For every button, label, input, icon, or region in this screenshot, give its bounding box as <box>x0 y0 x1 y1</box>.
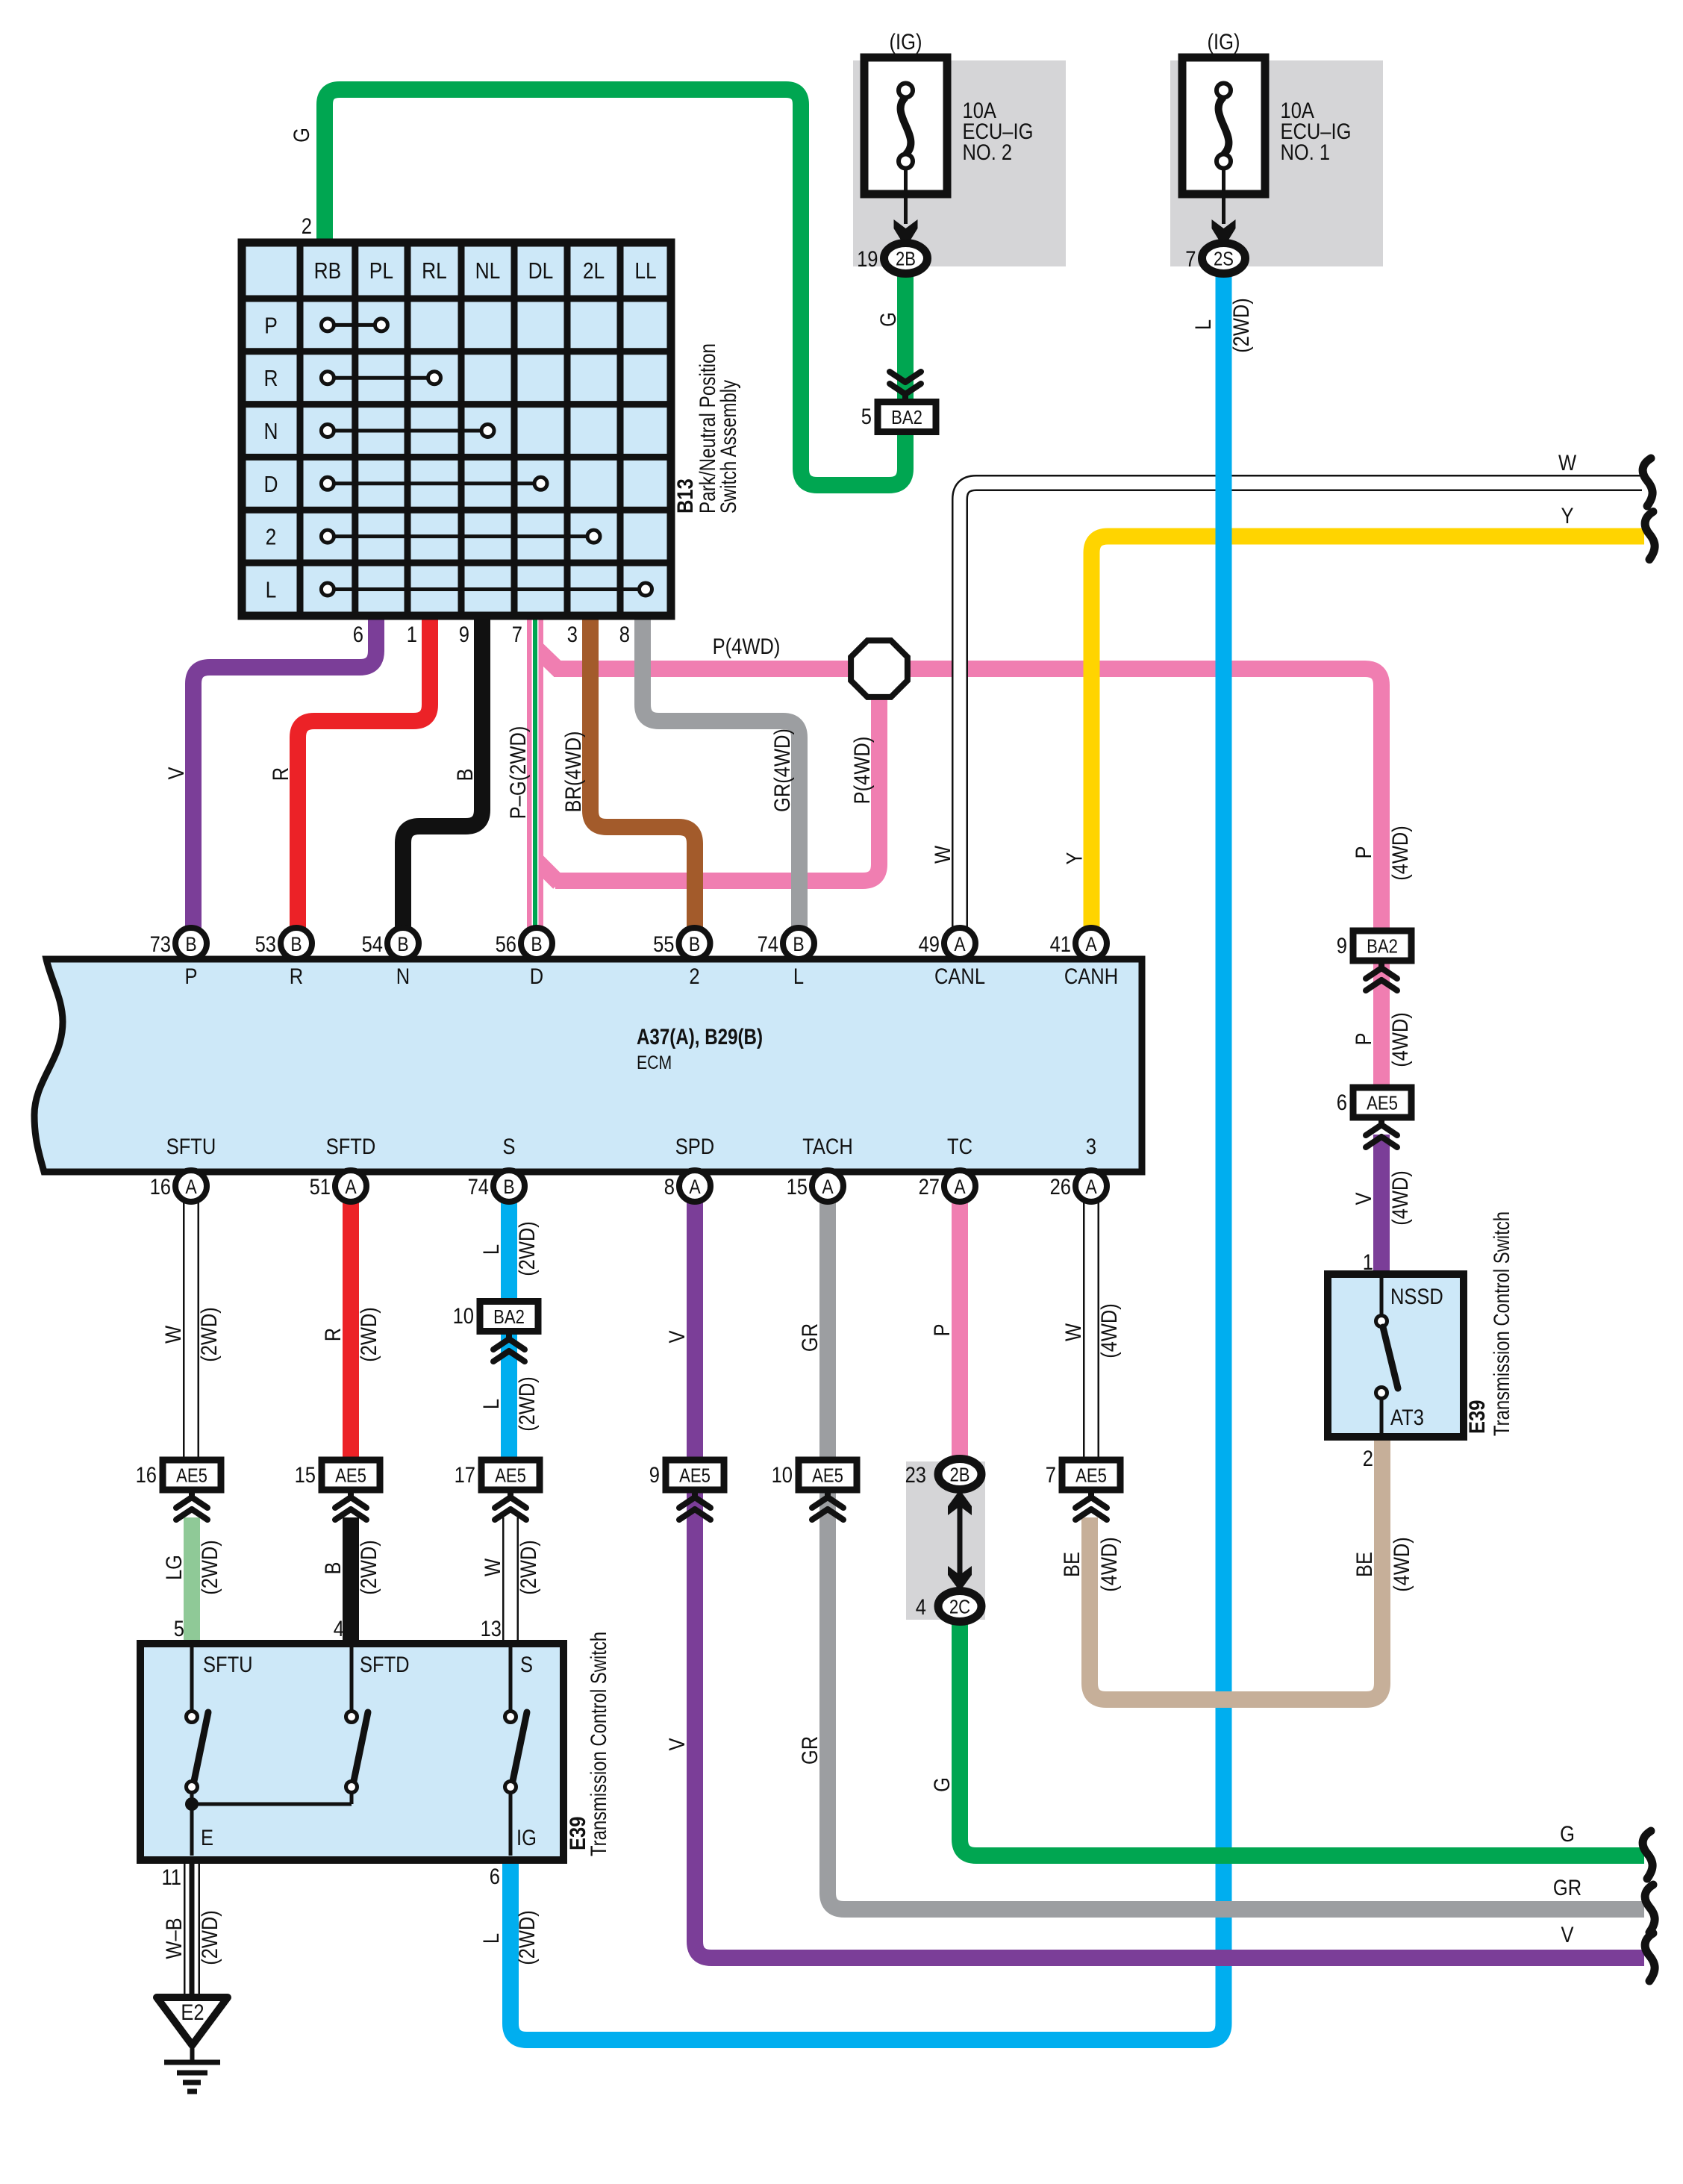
svg-text:16: 16 <box>136 1463 157 1488</box>
connector AE5 pin 10 <box>799 1460 857 1490</box>
svg-text:RB: RB <box>314 258 342 284</box>
svg-text:L: L <box>479 1399 504 1409</box>
svg-text:(4WD): (4WD) <box>1388 826 1413 881</box>
connector 2B pin 23 <box>938 1459 981 1490</box>
svg-text:Transmission Control Switch: Transmission Control Switch <box>587 1632 611 1856</box>
svg-text:(2WD): (2WD) <box>515 1221 540 1276</box>
svg-text:10: 10 <box>453 1304 474 1329</box>
svg-text:10: 10 <box>772 1463 793 1488</box>
ground E2 <box>157 1997 228 2045</box>
svg-text:G: G <box>1560 1822 1575 1847</box>
svg-text:B: B <box>503 1176 514 1198</box>
svg-text:AE5: AE5 <box>495 1464 526 1487</box>
svg-text:BA2: BA2 <box>493 1305 525 1328</box>
svg-text:3: 3 <box>567 623 578 647</box>
svg-text:56: 56 <box>496 932 516 957</box>
svg-text:(IG): (IG) <box>1208 30 1240 54</box>
wire P-G(2WD) from B13 pin 7 to ECM pin 56 <box>527 616 543 929</box>
svg-text:R: R <box>269 767 293 781</box>
svg-text:L: L <box>266 577 277 603</box>
svg-text:W: W <box>1061 1323 1086 1341</box>
svg-text:BE: BE <box>1352 1552 1377 1577</box>
svg-text:A: A <box>689 1176 700 1198</box>
svg-text:GR: GR <box>1553 1876 1581 1900</box>
svg-text:S: S <box>520 1653 533 1677</box>
NSSD/AT3 switch <box>1380 1278 1384 1315</box>
B13 switch contacts <box>328 323 381 327</box>
svg-text:V: V <box>1561 1923 1574 1947</box>
svg-text:AE5: AE5 <box>1367 1092 1398 1114</box>
svg-text:V: V <box>665 1738 690 1751</box>
V continuation squiggle <box>1645 1933 1655 1981</box>
svg-text:P: P <box>264 312 278 338</box>
fuse 10A ECU-IG NO.2 <box>864 57 947 194</box>
svg-text:7: 7 <box>512 623 522 647</box>
svg-text:74: 74 <box>468 1175 489 1199</box>
svg-text:3: 3 <box>1086 1135 1096 1159</box>
svg-text:(2WD): (2WD) <box>198 1910 222 1965</box>
svg-text:Y: Y <box>1561 504 1574 528</box>
svg-text:2S: 2S <box>1214 248 1234 270</box>
wire W(2WD) from ECM pin 16 SFTU to AE5 pin 16 <box>183 1200 199 1461</box>
wire L(2WD) from ECM pin 74 S through BA2 pin 10 to AE5 pin 17 <box>501 1200 517 1461</box>
svg-text:R: R <box>321 1328 346 1341</box>
svg-text:RL: RL <box>422 258 447 284</box>
svg-text:E39: E39 <box>1465 1400 1490 1434</box>
connector BA2 pin 9 <box>1353 931 1411 961</box>
svg-text:2: 2 <box>302 214 312 239</box>
connector AE5 pin 9 <box>666 1460 724 1490</box>
svg-text:DL: DL <box>528 258 554 284</box>
wire GR from ECM pin 15 TACH to AE5 pin 10 and to right edge <box>828 1200 1644 1909</box>
G continuation squiggle <box>1643 1831 1652 1879</box>
svg-text:N: N <box>264 418 278 444</box>
svg-text:P: P <box>1352 1033 1376 1046</box>
svg-text:G: G <box>290 128 314 143</box>
svg-text:E: E <box>201 1826 213 1850</box>
svg-text:2: 2 <box>1363 1447 1373 1471</box>
svg-text:2: 2 <box>266 524 277 550</box>
wire Y from right edge to ECM pin 41 CANH <box>1092 537 1645 930</box>
svg-text:W: W <box>931 845 955 864</box>
svg-text:(4WD): (4WD) <box>1097 1303 1122 1358</box>
E39 internal E bus <box>192 1803 352 1806</box>
svg-text:73: 73 <box>150 932 171 957</box>
GR continuation squiggle <box>1645 1885 1655 1932</box>
svg-text:B: B <box>793 933 804 955</box>
ECM pin 53(B) R <box>281 928 312 959</box>
svg-text:L: L <box>479 1244 504 1255</box>
svg-text:AE5: AE5 <box>1075 1464 1107 1487</box>
svg-text:23: 23 <box>905 1463 926 1488</box>
svg-text:P: P <box>1352 846 1376 859</box>
svg-text:(4WD): (4WD) <box>1388 1170 1413 1226</box>
svg-text:2L: 2L <box>583 258 605 284</box>
svg-text:V: V <box>1352 1193 1376 1205</box>
svg-text:(2WD): (2WD) <box>357 1307 381 1362</box>
svg-text:CANH: CANH <box>1064 964 1118 989</box>
svg-text:G: G <box>930 1777 955 1792</box>
svg-text:P(4WD): P(4WD) <box>713 634 781 659</box>
svg-text:11: 11 <box>162 1865 182 1890</box>
svg-text:16: 16 <box>150 1175 171 1199</box>
svg-text:8: 8 <box>664 1175 675 1199</box>
svg-text:N: N <box>396 964 410 989</box>
svg-text:CANL: CANL <box>934 964 985 989</box>
svg-text:1: 1 <box>1363 1250 1373 1275</box>
svg-text:27: 27 <box>919 1175 940 1199</box>
svg-text:AE5: AE5 <box>335 1464 366 1487</box>
svg-text:A: A <box>1085 933 1096 955</box>
ECM pin 56(B) D <box>521 928 552 959</box>
Y continuation squiggle <box>1645 512 1655 560</box>
svg-text:A: A <box>185 1176 196 1198</box>
svg-text:R: R <box>264 365 278 391</box>
svg-text:54: 54 <box>362 932 383 957</box>
svg-text:(2WD): (2WD) <box>198 1540 222 1595</box>
svg-text:GR: GR <box>798 1323 822 1352</box>
svg-text:41: 41 <box>1050 932 1071 957</box>
svg-text:5: 5 <box>174 1617 184 1641</box>
wire R(2WD) from ECM pin 51 SFTD to AE5 pin 15 <box>343 1200 359 1461</box>
svg-text:BA2: BA2 <box>891 406 922 428</box>
E39 switch S <box>509 1647 513 1711</box>
svg-text:(IG): (IG) <box>890 30 922 54</box>
wire G from connector 2B pin 19 down to BA2 <box>897 272 914 402</box>
fuse block background ECU-IG NO.1 <box>1170 60 1383 266</box>
svg-text:ECM: ECM <box>637 1052 672 1073</box>
ECM pin 73(B) P <box>175 928 207 959</box>
ECM pin 74(B) S <box>493 1170 525 1202</box>
ECM pin 49(A) CANL <box>944 928 975 959</box>
wire BE(4WD) from AE5 pin 7 to E39 pin 2 AT3 <box>1090 1438 1382 1700</box>
svg-text:GR(4WD): GR(4WD) <box>770 728 795 812</box>
svg-text:P: P <box>930 1324 955 1337</box>
svg-text:49: 49 <box>919 932 940 957</box>
svg-text:SFTD: SFTD <box>360 1653 410 1677</box>
svg-text:V: V <box>164 767 189 780</box>
svg-text:B13: B13 <box>673 478 698 514</box>
connector AE5 pin 16 <box>163 1460 221 1490</box>
svg-text:51: 51 <box>310 1175 331 1199</box>
svg-text:6: 6 <box>353 623 363 647</box>
svg-text:D: D <box>264 471 278 497</box>
svg-text:W: W <box>161 1325 186 1344</box>
fuse block background ECU-IG NO.2 <box>853 60 1066 266</box>
svg-text:(2WD): (2WD) <box>515 1910 540 1965</box>
svg-text:NO. 2: NO. 2 <box>963 140 1013 165</box>
ECM pin 27(A) TC <box>944 1170 975 1202</box>
wire B(2WD) from AE5 pin 15 to E39 pin 4 SFTD <box>343 1517 359 1647</box>
connector BA2 pin 5 <box>902 393 908 403</box>
wire V(4WD) from AE5 pin 6 to E39 pin 1 NSSD <box>1373 1135 1390 1278</box>
svg-text:Y: Y <box>1063 852 1087 865</box>
svg-text:L: L <box>793 964 804 989</box>
svg-text:B: B <box>531 933 542 955</box>
connector block background 2B/2C <box>906 1461 985 1620</box>
W continuation squiggle <box>1643 458 1652 506</box>
svg-text:(4WD): (4WD) <box>1097 1537 1122 1592</box>
wire G from B13 pin 2 to junction BA2 pin 5 <box>325 90 905 485</box>
svg-text:9: 9 <box>649 1463 660 1488</box>
svg-text:NO. 1: NO. 1 <box>1281 140 1331 165</box>
svg-text:P–G(2WD): P–G(2WD) <box>506 726 531 820</box>
ECM pin 41(A) CANH <box>1075 928 1107 959</box>
svg-text:(2WD): (2WD) <box>515 1376 540 1432</box>
svg-text:AE5: AE5 <box>176 1464 207 1487</box>
svg-text:SFTD: SFTD <box>326 1135 376 1159</box>
svg-text:1: 1 <box>407 623 417 647</box>
svg-text:15: 15 <box>787 1175 808 1199</box>
wire P(4WD) return diagonal joining P-G wire <box>537 861 559 883</box>
svg-text:PL: PL <box>369 258 393 284</box>
svg-text:S: S <box>503 1135 516 1159</box>
E39 switch SFTU <box>190 1647 194 1711</box>
svg-text:LL: LL <box>634 258 656 284</box>
wire G from connector 2C pin 4 down and right to edge <box>960 1620 1644 1856</box>
svg-text:SFTU: SFTU <box>166 1135 216 1159</box>
svg-text:A37(A), B29(B): A37(A), B29(B) <box>637 1025 763 1049</box>
svg-text:74: 74 <box>758 932 778 957</box>
svg-text:BA2: BA2 <box>1367 935 1398 958</box>
wire V from ECM pin 8 SPD to AE5 pin 9 and to right edge <box>695 1200 1644 1958</box>
svg-text:W: W <box>481 1558 505 1576</box>
svg-text:(4WD): (4WD) <box>1390 1537 1414 1592</box>
svg-text:15: 15 <box>295 1463 316 1488</box>
svg-text:W: W <box>1558 451 1577 475</box>
svg-text:9: 9 <box>459 623 469 647</box>
svg-text:7: 7 <box>1185 247 1196 272</box>
connector AE5 pin 17 <box>481 1460 540 1490</box>
octagon noise-filter junction on P(4WD) <box>851 640 908 697</box>
E39 Transmission Control Switch box <box>140 1644 563 1860</box>
fuse 10A ECU-IG NO.1 <box>1182 57 1265 194</box>
wire GR(4WD) from B13 pin 8 to ECM pin 74 <box>643 616 799 929</box>
svg-text:G: G <box>876 312 901 327</box>
svg-text:A: A <box>954 1176 965 1198</box>
svg-text:A: A <box>1085 1176 1096 1198</box>
svg-text:R: R <box>290 964 303 989</box>
ECM pin 16(A) SFTU <box>175 1170 207 1202</box>
wire B from B13 pin 9 to ECM pin 54 <box>403 616 482 929</box>
svg-text:2B: 2B <box>896 248 916 270</box>
ECM pin 51(A) SFTD <box>335 1170 366 1202</box>
svg-text:B: B <box>185 933 196 955</box>
svg-text:AT3: AT3 <box>1390 1405 1424 1430</box>
wire LG(2WD) from AE5 pin 16 to E39 pin 5 SFTU <box>184 1517 200 1647</box>
svg-text:E2: E2 <box>181 2000 204 2025</box>
svg-text:SPD: SPD <box>675 1135 714 1159</box>
svg-text:6: 6 <box>1337 1091 1347 1115</box>
svg-text:LG: LG <box>162 1555 187 1580</box>
svg-text:SFTU: SFTU <box>203 1653 253 1677</box>
svg-text:(2WD): (2WD) <box>357 1540 381 1595</box>
svg-text:V: V <box>665 1331 690 1344</box>
svg-text:B: B <box>689 933 700 955</box>
svg-text:2C: 2C <box>949 1596 970 1618</box>
wire BR(4WD) from B13 pin 3 to ECM pin 55 <box>590 616 695 929</box>
E39 switch SFTD <box>350 1647 354 1711</box>
wire P(4WD) from octagon down and left back to D wire <box>555 685 879 881</box>
interconnect double arrow 2B-2C <box>958 1499 963 1582</box>
svg-text:P(4WD): P(4WD) <box>850 737 875 805</box>
svg-text:55: 55 <box>653 932 674 957</box>
svg-text:B: B <box>453 769 478 781</box>
wire L(2WD) from connector 2S pin 7 down, left, up to E39 pin 6 IG <box>510 272 1224 2040</box>
svg-text:7: 7 <box>1046 1463 1056 1488</box>
svg-text:A: A <box>954 933 965 955</box>
wire P(4WD) branch diagonal at pin 7 <box>537 649 560 671</box>
wire P(4WD) from BA2 pin 9 to AE5 pin 6 <box>1373 958 1390 1088</box>
svg-text:A: A <box>345 1176 356 1198</box>
ECM pin 26(A) 3 <box>1075 1170 1107 1202</box>
connector AE5 pin 7 <box>1062 1460 1120 1490</box>
svg-text:B: B <box>321 1562 346 1575</box>
wire W(4WD) from ECM pin 26 "3" to AE5 pin 7 <box>1083 1200 1099 1461</box>
svg-text:IG: IG <box>516 1826 537 1850</box>
wire P from ECM pin 27 TC to connector 2B pin 23 <box>952 1200 968 1460</box>
B13 Park/Neutral Position Switch Assembly box <box>242 243 671 616</box>
svg-text:17: 17 <box>455 1463 475 1488</box>
svg-text:L: L <box>479 1933 504 1944</box>
svg-text:D: D <box>530 964 543 989</box>
svg-text:NSSD: NSSD <box>1390 1285 1443 1309</box>
svg-text:6: 6 <box>490 1865 500 1889</box>
ECM pin 8(A) SPD <box>679 1170 711 1202</box>
svg-text:5: 5 <box>861 405 872 429</box>
svg-text:B: B <box>290 933 302 955</box>
svg-text:8: 8 <box>619 623 630 647</box>
wire W from right edge to ECM pin 49 CANL <box>960 483 1642 929</box>
wire W-B(2WD) from E39 pin 11 E to ground E2 <box>184 1862 200 1997</box>
svg-text:4: 4 <box>334 1617 344 1641</box>
ECM A37(A), B29(B) box <box>34 959 1142 1172</box>
ECM pin 15(A) TACH <box>812 1170 843 1202</box>
svg-text:19: 19 <box>857 247 878 272</box>
wire R from B13 pin 1 to ECM pin 53 <box>298 616 430 929</box>
svg-text:AE5: AE5 <box>679 1464 711 1487</box>
svg-text:(4WD): (4WD) <box>1388 1012 1413 1067</box>
svg-text:2: 2 <box>689 964 699 989</box>
connector BA2 pin 10 <box>480 1302 538 1332</box>
svg-text:13: 13 <box>481 1617 502 1641</box>
connector AE5 pin 15 <box>322 1460 380 1490</box>
connector AE5 pin 6 <box>1353 1088 1411 1117</box>
svg-text:2B: 2B <box>950 1464 970 1486</box>
svg-text:AE5: AE5 <box>812 1464 843 1487</box>
wire V from B13 pin 6 to ECM pin 73 <box>193 616 376 929</box>
svg-text:NL: NL <box>475 258 501 284</box>
connector 2C pin 4 <box>938 1591 981 1622</box>
svg-text:BR(4WD): BR(4WD) <box>561 731 586 812</box>
svg-text:(2WD): (2WD) <box>197 1307 222 1362</box>
E39 Transmission Control Switch (NSSD/AT3) box <box>1328 1274 1464 1437</box>
ECM pin 74(B) L <box>783 928 814 959</box>
svg-text:Transmission Control Switch: Transmission Control Switch <box>1490 1211 1514 1436</box>
svg-text:9: 9 <box>1337 934 1347 958</box>
svg-text:W–B: W–B <box>162 1918 187 1959</box>
svg-text:(2WD): (2WD) <box>1229 298 1254 353</box>
svg-text:BE: BE <box>1060 1552 1084 1577</box>
ECM pin 55(B) 2 <box>679 928 711 959</box>
svg-text:A: A <box>822 1176 833 1198</box>
svg-text:TC: TC <box>947 1135 972 1159</box>
ECM pin 54(B) N <box>387 928 419 959</box>
svg-text:GR: GR <box>798 1736 822 1765</box>
svg-text:4: 4 <box>916 1595 926 1620</box>
wire P(4WD) horizontal from D-line branch to corner, down to BA2 pin 9 <box>554 669 1381 933</box>
svg-text:B: B <box>397 933 408 955</box>
svg-text:L: L <box>1191 319 1216 330</box>
wire W(2WD) from AE5 pin 17 to E39 pin 13 S <box>502 1517 519 1647</box>
svg-text:26: 26 <box>1050 1175 1071 1199</box>
svg-text:53: 53 <box>255 932 276 957</box>
svg-text:TACH: TACH <box>802 1135 853 1159</box>
svg-text:P: P <box>185 964 198 989</box>
svg-text:Switch Assembly: Switch Assembly <box>716 380 741 514</box>
svg-text:(2WD): (2WD) <box>516 1540 541 1595</box>
